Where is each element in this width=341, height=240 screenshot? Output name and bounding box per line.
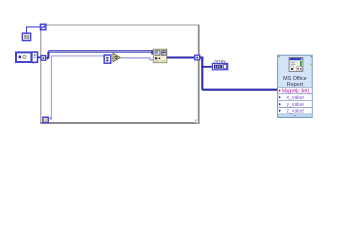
iteration wire (thin) bbox=[48, 56, 104, 120]
increment function triangle bbox=[113, 53, 120, 61]
svg-text:z_value: z_value bbox=[287, 109, 305, 115]
row 1 Magnetic_field_ bbox=[279, 89, 281, 92]
express VI icon bbox=[289, 58, 303, 72]
svg-text:y_value: y_value bbox=[287, 102, 305, 108]
left tunnel bbox=[41, 56, 49, 61]
i iteration terminal bbox=[43, 117, 48, 122]
row 3 y_value bbox=[279, 103, 281, 106]
dynamic data wire tunnel to build icon (thick, striped) bbox=[48, 50, 153, 58]
numeric constant (count) bbox=[22, 33, 30, 40]
wire junction to Array indicator bbox=[202, 66, 212, 68]
corner handles bbox=[278, 56, 280, 58]
wire control to left tunnel bbox=[38, 56, 42, 58]
express VI input rows bbox=[278, 87, 312, 117]
wire right tunnel to express VI bbox=[200, 58, 279, 90]
for loop border bbox=[40, 25, 199, 123]
svg-text:Magnetic_field_: Magnetic_field_ bbox=[282, 89, 312, 95]
conversion node bbox=[104, 55, 111, 63]
bottom strip bbox=[278, 114, 312, 117]
loop corner handle bbox=[195, 120, 198, 123]
express VI MS Office Report bbox=[278, 55, 313, 117]
right tunnel bbox=[195, 55, 200, 60]
row 4 z_value bbox=[279, 109, 281, 112]
dynamic data wire icon to right tunnel bbox=[167, 56, 195, 58]
wire conversion to triangle bbox=[111, 57, 113, 59]
wire constant to N bbox=[27, 27, 41, 33]
row 2 x_value bbox=[279, 96, 281, 99]
Array indicator bbox=[212, 63, 227, 69]
svg-text:x_value: x_value bbox=[287, 95, 305, 101]
build table icon bbox=[153, 49, 167, 63]
for loop N count terminal bbox=[40, 24, 46, 30]
wire triangle to build icon bbox=[120, 58, 153, 60]
control terminal bbox=[16, 52, 38, 63]
junction node bbox=[201, 66, 203, 68]
